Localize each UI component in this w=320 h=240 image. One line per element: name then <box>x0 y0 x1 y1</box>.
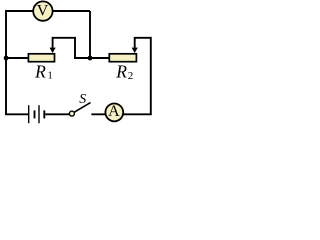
wire R1 slider: shaft, over and down <box>53 38 75 59</box>
node junction dot middle <box>88 56 93 61</box>
wire main loop: top, left side, bottom-left to battery <box>6 11 90 114</box>
wire bottom: switch to ammeter to right corner <box>91 113 151 115</box>
node junction dot left <box>4 56 9 61</box>
resistor R1 body <box>28 54 54 62</box>
svg-text:A: A <box>108 103 120 120</box>
svg-text:1: 1 <box>48 71 53 82</box>
svg-text:V: V <box>37 3 49 20</box>
wire voltmeter lead down to junction <box>89 11 91 58</box>
svg-text:R: R <box>115 61 127 81</box>
wire R2 slider: shaft, over and down right side to bottom <box>135 38 151 115</box>
voltmeter V <box>33 1 52 20</box>
svg-text:R: R <box>34 61 46 81</box>
resistor R2 body <box>109 54 136 62</box>
battery: plate short 1 <box>34 110 36 118</box>
wire middle right: R1 slider corner to R2 <box>74 57 109 59</box>
ammeter A <box>105 104 123 122</box>
battery: plate long 2 <box>38 105 40 123</box>
resistor R2 slider arrowhead <box>132 48 138 53</box>
wire bottom: battery to switch <box>45 113 69 115</box>
resistor R1 slider arrowhead <box>50 48 56 53</box>
svg-text:2: 2 <box>128 70 134 82</box>
battery: plate short 2 <box>43 110 45 118</box>
battery: plate long 1 <box>28 105 30 123</box>
switch S pivot <box>69 111 74 116</box>
svg-text:S: S <box>79 91 86 106</box>
wire middle left: junction to R1 <box>6 57 28 59</box>
switch S lever <box>74 103 90 113</box>
